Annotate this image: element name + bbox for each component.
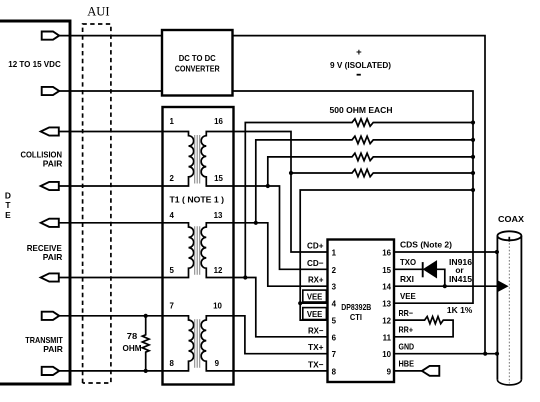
svg-text:3: 3 xyxy=(332,283,337,292)
svg-text:6: 6 xyxy=(332,333,337,342)
svg-text:4: 4 xyxy=(170,211,175,220)
svg-text:TX−: TX− xyxy=(308,359,324,369)
svg-text:8: 8 xyxy=(170,359,175,368)
junction R4/CD+ xyxy=(289,171,293,175)
T1 winding secondary 2 (pins 13-12) xyxy=(201,223,232,278)
wire TXO: U1 pin 15 to diode D1 xyxy=(394,268,423,270)
svg-text:VEE: VEE xyxy=(400,291,416,301)
wire transmit B to T1 pin 8 xyxy=(59,370,162,372)
VEE label box pin 5 xyxy=(303,308,327,320)
svg-text:4: 4 xyxy=(332,300,337,309)
resistor R3 500 ohm (CD- net) xyxy=(268,153,473,186)
junction VEE rail R2 xyxy=(471,138,475,142)
connector: +12V input xyxy=(42,32,60,40)
connector: transmit pair B input xyxy=(42,367,60,375)
wire RX- net: T1 pin 12 to U1 pin 6 xyxy=(234,278,328,337)
wire diode anode to RXI node xyxy=(436,269,445,286)
svg-text:DC TO DC: DC TO DC xyxy=(179,53,216,63)
wire VEE pin 4 stub xyxy=(300,302,327,304)
svg-text:D: D xyxy=(5,190,11,200)
svg-text:GND: GND xyxy=(399,341,415,351)
T1 winding primary 3 (pins 7-8) xyxy=(164,316,194,371)
svg-text:10: 10 xyxy=(382,350,391,359)
wire -9V rail from converter to VEE rail xyxy=(233,91,474,303)
wire receive B to T1 pin 5 xyxy=(59,277,163,279)
svg-text:78: 78 xyxy=(127,331,138,341)
junction T1 pin12/R1 xyxy=(243,275,247,279)
wire RXI: U1 pin 14 to coax center xyxy=(394,285,500,287)
wire transmit A to T1 pin 7 xyxy=(59,315,162,317)
junction +9V/GND xyxy=(483,352,487,356)
svg-text:14: 14 xyxy=(382,283,391,292)
svg-text:CONVERTER: CONVERTER xyxy=(175,64,220,74)
junction 78 ohm bottom xyxy=(144,369,148,373)
svg-text:12 TO 15 VDC: 12 TO 15 VDC xyxy=(8,59,61,69)
svg-text:13: 13 xyxy=(214,211,223,220)
svg-text:CTI: CTI xyxy=(350,312,362,322)
DTE boundary xyxy=(0,21,70,384)
wire +12V to DC-DC xyxy=(59,35,162,37)
svg-text:AUI: AUI xyxy=(87,4,109,18)
svg-text:T: T xyxy=(5,200,11,210)
junction VEE rail R3 xyxy=(471,155,475,159)
coax center conductor tick xyxy=(508,237,510,242)
svg-text:HBE: HBE xyxy=(399,359,415,369)
VEE label box pin 4 xyxy=(303,290,327,302)
wire CDS: U1 pin 16 to coax shield xyxy=(394,251,497,253)
svg-text:RR−: RR− xyxy=(399,308,414,318)
T1 core 2 xyxy=(195,226,200,274)
svg-text:RX+: RX+ xyxy=(308,275,324,285)
svg-text:7: 7 xyxy=(332,350,337,359)
resistor R2 500 ohm (RX+ net) xyxy=(256,136,473,223)
wire RX+ net: T1 pin 13 to U1 pin 3 xyxy=(234,223,328,286)
svg-text:VEE: VEE xyxy=(307,291,323,301)
wire +9V rail from converter to GND node xyxy=(233,36,486,354)
T1 core 1 xyxy=(195,135,200,184)
wire CD+ net: T1 pin 16 to U1 pin 1 xyxy=(234,132,328,253)
svg-text:RX−: RX− xyxy=(308,325,324,335)
svg-text:1K 1%: 1K 1% xyxy=(447,305,473,315)
svg-text:1: 1 xyxy=(332,249,337,258)
resistor R4 500 ohm (CD+ net) xyxy=(291,169,473,176)
svg-text:RR+: RR+ xyxy=(399,325,414,335)
svg-text:IN415: IN415 xyxy=(449,274,472,284)
transformer T1 box xyxy=(163,107,234,385)
svg-text:TX+: TX+ xyxy=(308,342,324,352)
svg-text:OHM: OHM xyxy=(123,343,142,353)
svg-text:500 OHM EACH: 500 OHM EACH xyxy=(330,105,393,115)
svg-text:12: 12 xyxy=(382,317,391,326)
svg-text:2: 2 xyxy=(332,266,337,275)
junction 78 ohm top xyxy=(144,314,148,318)
T1 winding secondary 1 (pins 16-15) xyxy=(201,132,232,187)
svg-text:COAX: COAX xyxy=(498,214,524,224)
svg-text:9: 9 xyxy=(387,367,392,376)
DC to DC converter module box xyxy=(162,30,233,96)
arrowhead into coax xyxy=(499,282,507,291)
wire TX+ net: T1 pin 10 to U1 pin 7 xyxy=(234,316,328,354)
svg-text:11: 11 xyxy=(383,333,392,342)
svg-text:VEE: VEE xyxy=(307,309,323,319)
junction T1 pin13/R2 xyxy=(254,221,258,225)
coax bottom arc xyxy=(497,380,521,385)
wire TX- net: T1 pin 9 to U1 pin 8 xyxy=(234,370,328,372)
svg-text:9 V (ISOLATED): 9 V (ISOLATED) xyxy=(330,60,391,70)
T1 core 3 xyxy=(195,319,200,368)
svg-text:7: 7 xyxy=(170,301,175,310)
connector: transmit pair A input xyxy=(42,312,60,320)
svg-text:PAIR: PAIR xyxy=(43,344,63,354)
coax center conductor dashed xyxy=(508,243,510,384)
svg-text:13: 13 xyxy=(382,300,391,309)
resistor R5 1K 1% (RR- to RR+) xyxy=(394,317,453,337)
svg-text:15: 15 xyxy=(214,174,223,183)
svg-text:16: 16 xyxy=(214,117,223,126)
svg-text:10: 10 xyxy=(213,301,222,310)
wire GND: U1 pin 10 to coax shield xyxy=(394,353,497,355)
connector: receive pair A output xyxy=(41,219,59,227)
wire HBE: U1 pin 9 stub xyxy=(394,370,423,372)
junction VEE pin 4 xyxy=(298,301,302,305)
svg-text:5: 5 xyxy=(170,266,175,275)
junction GND/coax shield xyxy=(495,352,499,356)
junction VEE rail R4 xyxy=(471,171,475,175)
svg-text:16: 16 xyxy=(382,249,391,258)
svg-text:E: E xyxy=(5,210,11,220)
svg-text:12: 12 xyxy=(214,266,223,275)
wire -12V to DC-DC xyxy=(59,90,162,92)
svg-text:8: 8 xyxy=(332,367,337,376)
svg-text:+: + xyxy=(356,47,362,58)
svg-text:15: 15 xyxy=(382,266,391,275)
svg-text:5: 5 xyxy=(332,317,337,326)
junction VEE rail R1 xyxy=(471,120,475,124)
connector: collision pair B output xyxy=(41,182,59,190)
diode D1 triangle xyxy=(424,262,436,277)
coax cylinder body xyxy=(497,236,521,380)
resistor R 78 ohm across transmit pair xyxy=(142,316,149,371)
junction diode/RXI xyxy=(443,284,447,288)
wire CD- net: T1 pin 15 to U1 pin 2 xyxy=(234,186,328,269)
connector: receive pair B output xyxy=(41,273,59,281)
wire VEE net: pins 4,5 to VEE rail xyxy=(300,190,473,320)
IC U1 DP8392B CTI box xyxy=(328,240,395,383)
label minus xyxy=(357,74,361,76)
AUI dashed boundary xyxy=(83,24,111,383)
svg-text:PAIR: PAIR xyxy=(43,159,63,169)
connector: HBE xyxy=(422,366,439,376)
wire receive A to T1 pin 4 xyxy=(59,222,163,224)
T1 winding primary 2 (pins 4-5) xyxy=(164,223,194,278)
coax top ellipse xyxy=(497,231,521,240)
T1 winding primary 1 (pins 1-2) xyxy=(164,132,194,187)
connector: -12V input xyxy=(42,87,60,95)
svg-text:1: 1 xyxy=(170,117,175,126)
connector: collision pair A output xyxy=(41,127,59,135)
svg-text:RXI: RXI xyxy=(400,274,414,284)
wire collision B to T1 pin 2 xyxy=(59,185,163,187)
svg-text:CD−: CD− xyxy=(307,258,324,268)
svg-text:DP8392B: DP8392B xyxy=(341,302,371,312)
resistor R1 500 ohm (RX- net) xyxy=(245,119,473,278)
svg-text:9: 9 xyxy=(215,359,220,368)
svg-text:T1 ( NOTE 1 ): T1 ( NOTE 1 ) xyxy=(170,195,225,205)
svg-text:TXO: TXO xyxy=(400,257,416,267)
wire collision A to T1 pin 1 xyxy=(59,131,163,133)
diode D1 cathode bar xyxy=(422,262,424,277)
junction VEE rail pins 4-5 xyxy=(471,188,475,192)
junction T1 pin15/R3 xyxy=(266,184,270,188)
svg-text:CDS (Note 2): CDS (Note 2) xyxy=(400,240,452,250)
junction CDS/coax shield xyxy=(495,250,499,254)
T1 winding secondary 3 (pins 10-9) xyxy=(201,316,232,371)
svg-text:CD+: CD+ xyxy=(307,241,324,251)
svg-text:2: 2 xyxy=(170,174,175,183)
svg-text:PAIR: PAIR xyxy=(43,252,63,262)
